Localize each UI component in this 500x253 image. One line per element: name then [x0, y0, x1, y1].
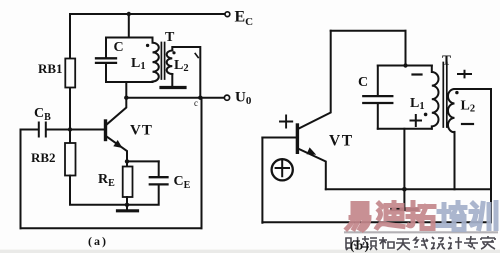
transistor VT (b) emitter [298, 149, 326, 190]
wire: base lead (b) [262, 137, 296, 139]
watermark character tuo (red) [408, 203, 434, 229]
wire: CB left lead [21, 129, 39, 131]
capacitor C (b) plates [363, 96, 392, 103]
transistor VT (b) base bar [296, 125, 299, 152]
wire: tank loop top (a) [106, 37, 153, 39]
wire: RB2 bottom to emitter ground node [70, 176, 127, 205]
polarity dot L1 (a) [146, 44, 149, 47]
wire: tank bottom stem to collector node [125, 82, 127, 98]
caption character tian [396, 239, 410, 250]
tick mark near L2 (a) [195, 54, 198, 58]
emitter arrow (b) [307, 147, 317, 154]
plus sign near base (b) [280, 115, 292, 127]
watermark character xun (blue) [470, 203, 496, 229]
junction dots (a) [68, 12, 203, 207]
transformer core T (a) [161, 43, 164, 80]
current source symbol [272, 159, 293, 180]
minus sign L1 top (b) [413, 73, 422, 75]
wire: right branch (b) [490, 89, 492, 222]
svg-text:T: T [165, 30, 175, 45]
resistor RB2 [65, 143, 76, 176]
caption character he [379, 237, 394, 249]
wire: bottom rail (a) [21, 227, 202, 229]
polarity dot L2 (b) [455, 91, 458, 94]
ground at emitter (a) [126, 205, 128, 210]
watermark underline [344, 231, 498, 233]
emitter arrow (a) [113, 140, 122, 148]
wire: tank loop bottom (a) [106, 81, 153, 83]
svg-text:T: T [442, 53, 451, 68]
transistor VT (a) emitter [106, 136, 127, 161]
wire: L2 top connection (b) [455, 88, 492, 90]
wire: base line [48, 129, 105, 131]
wire: bottom rail (b) [262, 221, 491, 223]
wire: RB2 branch [69, 130, 71, 144]
ground under L2 (a) [161, 86, 185, 89]
svg-text:c: c [194, 98, 198, 108]
caption character pin [362, 236, 377, 250]
ground bar tank (b) [403, 189, 405, 208]
wire: L2 bottom stem (b) [454, 132, 456, 189]
svg-text:(a): (a) [88, 234, 108, 248]
wire: top rail (b) [331, 30, 406, 32]
wire: tank loop top (b) [378, 65, 432, 67]
wire: emitter line (b) [326, 188, 491, 190]
polarity dot L2 (a) [172, 51, 175, 54]
inductor L1 (b) [432, 66, 439, 129]
terminal EC [225, 12, 230, 17]
resistor RB1 [65, 59, 75, 88]
wire: tank bottom stem (b) [403, 129, 405, 190]
plus sign L2 top (b) [458, 71, 471, 78]
capacitor CE plates [150, 177, 168, 184]
svg-text:C: C [114, 40, 124, 55]
inductor L2 (a) [167, 51, 173, 75]
capacitor CE branch [127, 161, 159, 204]
caption character ji [448, 237, 462, 249]
wire: RE bottom [126, 197, 128, 205]
wire: tank loop left with capacitor gap [105, 38, 107, 83]
minus sign L2 bottom (b) [462, 123, 473, 125]
wire: tank top stem [128, 14, 130, 38]
caption character zhuan [464, 236, 478, 249]
svg-text:RB1: RB1 [38, 61, 63, 76]
transformer core T (b) [443, 63, 447, 128]
wire: L2 top connection to right branch [172, 47, 200, 98]
wire: left vertical (a) [20, 130, 22, 229]
watermark character di (red) [377, 203, 403, 228]
junction dots (b) [402, 63, 408, 191]
transistor VT (a) base bar [104, 121, 107, 140]
resistor RE [123, 167, 133, 198]
wire: right vertical (a) [201, 98, 203, 229]
wire: output line to U0 [126, 97, 224, 99]
caption character xian [414, 237, 428, 249]
wire: emitter node to CE branch [127, 160, 159, 162]
watermark character yi (red) [347, 204, 369, 230]
inductor L2 (b) [448, 89, 455, 132]
caption character she2 [431, 237, 445, 249]
wire: tank loop left with cap gap (b) [377, 66, 379, 129]
wire: tank stem top (b) [405, 31, 407, 66]
caption character jia [481, 236, 495, 249]
capacitor C (a) plates [96, 58, 116, 63]
capacitor CB [39, 123, 46, 137]
wire: RB1 branch vertical [69, 14, 71, 130]
svg-text:VT: VT [329, 133, 354, 150]
svg-text:(b): (b) [350, 238, 370, 253]
wire: emitter to RE [126, 161, 128, 166]
plus sign L1 bottom (b) [411, 115, 422, 126]
inductor L1 (a) [153, 38, 159, 83]
wire: L2 bottom stem [171, 74, 173, 86]
watermark character pei (blue) [438, 203, 465, 230]
caption character she [346, 237, 360, 250]
transistor VT (a) collector [106, 98, 126, 125]
polarity dot L1 (b) [424, 113, 428, 117]
wire: top supply rail (a) [70, 13, 225, 15]
svg-text:VT: VT [130, 123, 153, 139]
wire: left vertical (b) [261, 138, 263, 223]
wire: collector vertical (b) [299, 31, 331, 129]
svg-text:RB2: RB2 [31, 150, 56, 165]
svg-text:C: C [358, 75, 368, 90]
wire: tank loop bottom (b) [378, 128, 432, 130]
terminal U0 [224, 95, 229, 100]
